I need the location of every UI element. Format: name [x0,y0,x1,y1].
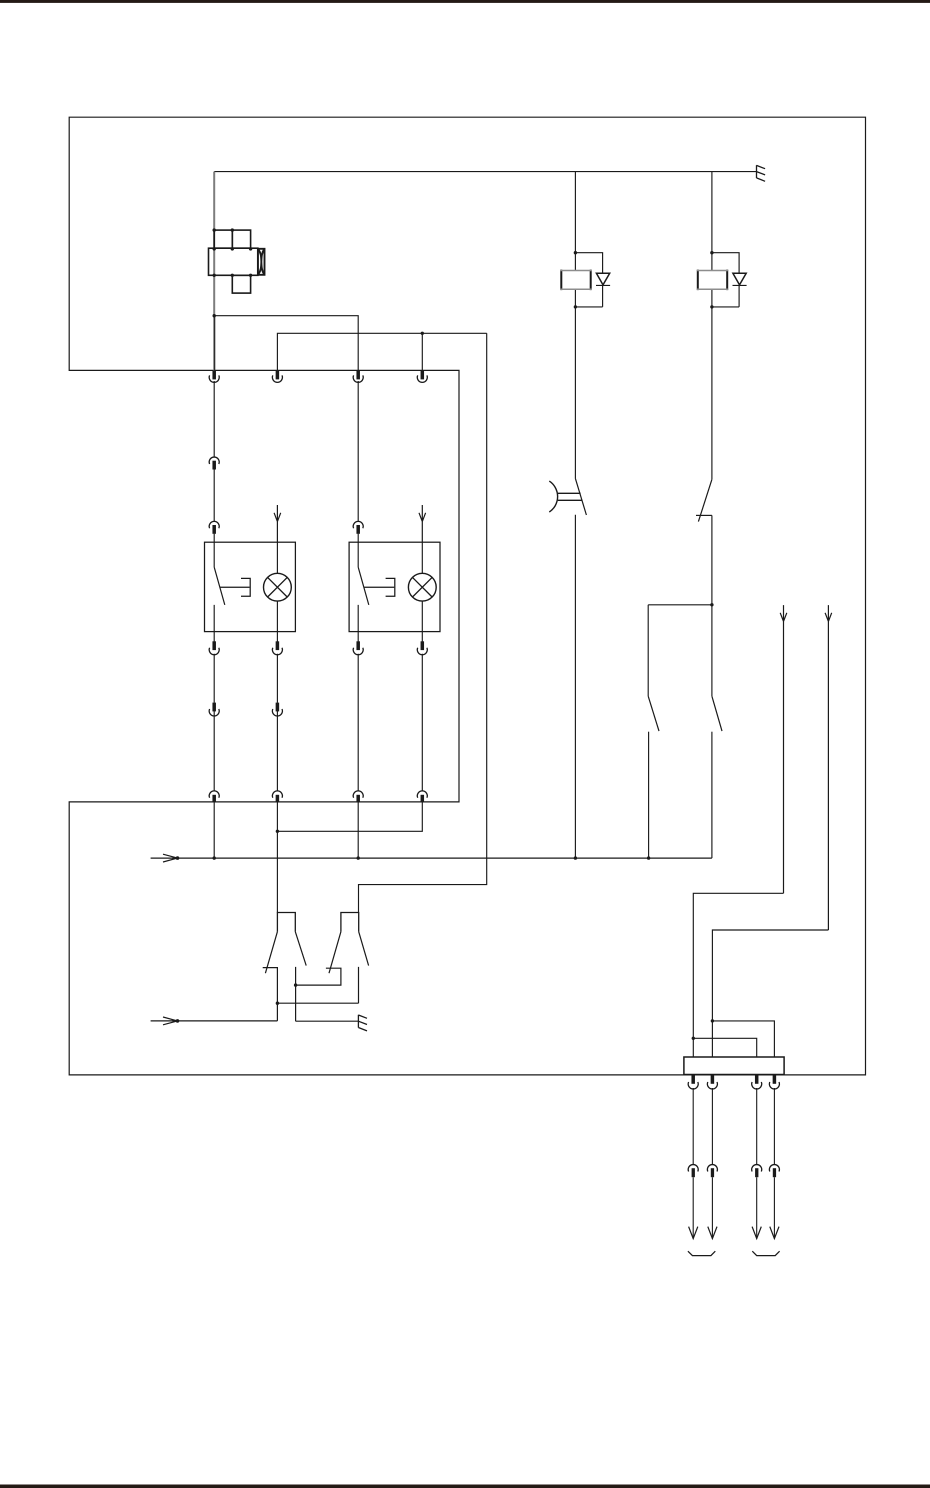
wire top supply line [214,171,756,173]
wire S1 lower [574,515,576,858]
T2 right contact [277,967,358,1003]
connector pin w1 below box [212,641,216,650]
harness inline pin 3 [755,1168,758,1177]
block pin 1 [691,1075,695,1084]
wire w4 below boundary [277,802,422,831]
harness inline pin 2 [711,1168,714,1177]
wire w1 below boundary [213,802,215,858]
block pin 3 [755,1075,759,1084]
arrow wire w4 [419,505,426,542]
connector w1 row2 [212,703,216,712]
selector T2 body [341,913,359,932]
block pin cups [688,1082,698,1089]
wire w3 mid [357,381,359,542]
wire w2 below boundary [276,802,278,913]
wire w4 low [421,654,423,791]
switch S2 blade [698,479,712,521]
node w3 on feed [357,856,360,859]
connector pin w4 boundary top [421,371,425,380]
wiring boundary box [69,117,865,1075]
B2 switch blade [358,567,369,605]
pressure switch S1 actuator arc [549,481,557,512]
ground line G2 [296,1020,359,1022]
node S3 on feed [647,856,650,859]
arrowhead pin4 [770,1227,779,1239]
connector cup w1 top [209,375,219,382]
block pin 4 [773,1075,777,1084]
arrow wire w2 [274,505,281,542]
flasher unit F [209,230,265,293]
connector pin w2 below box [276,641,280,650]
wire S4 lower [711,732,713,858]
connector pin w4 boundary bottom [421,795,425,802]
node T2 hook [294,983,297,986]
connector w1 inline 1 [209,457,219,464]
pressure switch S1 bars [558,493,583,500]
lamp L1 [264,573,292,601]
connector cups below boxes [209,648,219,655]
switch S4 wire [711,605,713,696]
node S1 on feed [574,856,577,859]
node w1-branch [213,314,216,317]
node K1 top [574,251,577,254]
connector block X1 [684,1057,784,1075]
connector pin w3 boundary top [356,371,360,380]
harness inline pin 1 [692,1168,695,1177]
B2 switch wire [357,542,359,631]
T1 contact hook [263,968,278,1021]
relay K1 coil [561,270,590,291]
B1 switch contact [220,578,251,596]
selector T1 right leg [295,932,306,966]
relay K2 coil [698,270,727,291]
relay K1 wire [575,172,610,479]
wire branch line [648,604,712,606]
node contact-w2 [276,1002,279,1005]
connector pin w2 boundary top [276,371,280,380]
selector T2 right leg [359,932,369,966]
B1 switch blade [214,567,225,605]
ground G1 [757,165,766,181]
node w4-branch [421,332,424,335]
page bottom bar [0,1485,930,1488]
T2 contact hook [296,967,341,1021]
connector cup w3 top [353,375,363,382]
switch S3 blade [648,696,659,731]
wire A to connector [693,893,783,1057]
B1 switch wire [213,542,215,631]
node K2 bottom [710,305,713,308]
node w2-w4 join [276,830,279,833]
flasher junction dots [213,228,253,277]
wire A branch to pin3 [693,1038,756,1057]
diode D2 [733,273,746,285]
wire w1 upper black [214,316,216,371]
wire long feed to lamp selector [359,333,487,912]
selector T1 body [277,913,295,932]
wire w3 low [357,654,359,791]
pair bracket right [752,1251,779,1255]
connector pin w1 boundary bottom [212,795,216,802]
connector pin w2 boundary bottom [276,795,280,802]
connector pin w4 below box [421,641,425,650]
wire w1 low [213,654,215,791]
wires below boxes [214,632,422,642]
selector T1 left leg [265,932,277,974]
connector pin w1 boundary top [212,371,216,380]
connector w1 inline 2 [209,521,219,528]
harness wires to arrows [693,1177,774,1238]
B2 switch contact [364,578,395,596]
arrow A1 tip [176,856,180,860]
feed line with arrow A2 [151,1017,278,1025]
arrow wire R1 down [780,605,787,893]
node K2 top [710,251,713,254]
pair bracket left [688,1251,715,1255]
relay K2 wire [712,172,747,480]
arrowhead pin3 [752,1227,761,1239]
harness inline pin 4 [773,1168,776,1177]
L2 wires [421,542,423,631]
node K1 bottom [574,305,577,308]
wire w3 below boundary [357,802,359,858]
wire branch to w3 [214,316,358,371]
ground G2 [358,1015,367,1031]
wire gray feed [213,172,215,371]
page top bar [0,0,930,3]
switch S4 blade [712,696,722,731]
connector pin w3 boundary bottom [356,795,360,802]
connector cup w2 top [272,375,282,382]
connector w2 row2 [276,703,280,712]
wire S2 lower [711,515,713,604]
node w1 on feed [213,856,216,859]
wire w1 mid [213,381,215,542]
selector T2 left leg [329,932,341,974]
wire B branch to pin4 [712,1021,774,1057]
harness wires down [693,1088,774,1165]
node contact branch [710,603,713,606]
connector cups at boundary bottom [209,791,219,798]
diode D1 [596,273,609,285]
arrowhead pin1 [689,1227,698,1239]
lamp switch unit box B1 [205,542,296,631]
wire S3 lower [648,732,650,858]
feed line with arrow A1 [151,854,712,862]
connector w3 inline [353,521,363,528]
switch S3 wire [647,605,649,696]
node A branch [692,1037,695,1040]
wire w2 low [276,654,278,791]
switch S2 contact [696,514,712,516]
L1 wires [276,542,278,631]
wire bus to w2/w4/feed [277,333,486,370]
node B branch [711,1019,714,1022]
harness inline cups [688,1165,698,1172]
connector cup w4 top [417,375,427,382]
wire B to connector [712,930,828,1057]
lamp switch unit box B2 [349,542,440,631]
block pin 2 [711,1075,715,1084]
connector pin w3 below box [356,641,360,650]
arrow wire R2 down [825,605,832,930]
pressure switch S1 blade [575,479,586,515]
arrow A2 tip [176,1019,180,1023]
lamp L2 [408,573,436,601]
arrowhead pin2 [708,1227,717,1239]
